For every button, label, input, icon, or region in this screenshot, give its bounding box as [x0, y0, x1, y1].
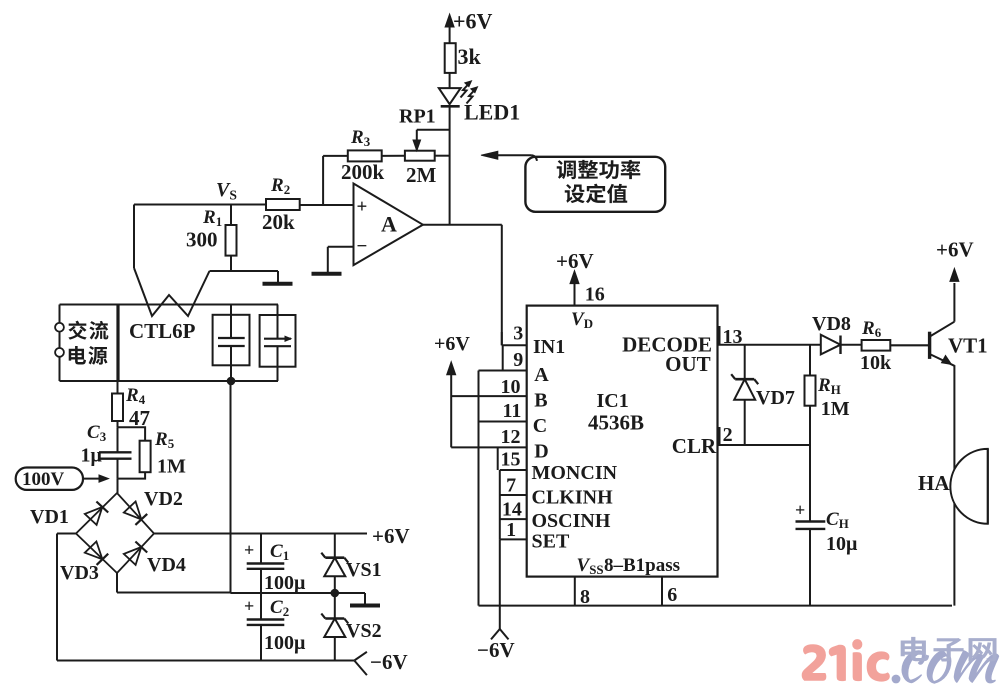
diode VD3	[60, 542, 108, 585]
+6V supply (top, above 3k)	[445, 9, 492, 44]
svg-text:−6V: −6V	[477, 638, 515, 662]
vertical bus SET/OSCINH/CLKINH/MONCIN	[499, 470, 501, 539]
svg-text:VD8: VD8	[812, 313, 851, 335]
svg-text:12: 12	[501, 426, 521, 448]
zener VS1	[321, 534, 381, 594]
pin 6 stub and label	[662, 577, 677, 607]
svg-text:8–B1pass: 8–B1pass	[604, 555, 680, 576]
bridge rectifier arms	[76, 493, 154, 573]
svg-text:CLKINH: CLKINH	[532, 487, 614, 509]
zener VS2	[321, 593, 381, 661]
wire bridge right to +6V rail	[154, 524, 410, 548]
pin 11 stub and label	[479, 400, 527, 422]
node Vs	[134, 179, 266, 205]
svg-text:VS2: VS2	[346, 620, 382, 642]
pin 8 stub and label	[575, 577, 590, 608]
CTL6P element box 1	[213, 305, 250, 382]
svg-text:16: 16	[585, 284, 605, 306]
svg-text:VD4: VD4	[147, 554, 186, 576]
svg-text:−: −	[357, 236, 368, 257]
label IC1 4536B	[588, 390, 644, 435]
svg-text:9: 9	[513, 349, 523, 371]
svg-text:1μ: 1μ	[81, 445, 103, 467]
svg-text:A: A	[381, 212, 397, 237]
svg-text:200k: 200k	[341, 160, 385, 184]
svg-text:C: C	[533, 415, 547, 437]
resistor R4 47	[112, 381, 150, 430]
svg-text:2: 2	[723, 424, 733, 446]
svg-text:10k: 10k	[860, 352, 892, 374]
svg-text:4536B: 4536B	[588, 411, 644, 435]
-6V rail (bottom left)	[57, 660, 354, 662]
svg-text:100V: 100V	[22, 469, 65, 490]
svg-text:+6V: +6V	[936, 238, 974, 262]
svg-text:6: 6	[667, 584, 677, 606]
svg-text:2M: 2M	[406, 163, 437, 187]
svg-text:3: 3	[513, 322, 523, 344]
svg-text:+6V: +6V	[434, 333, 470, 355]
transistor VT1	[930, 238, 988, 471]
svg-text:CTL6P: CTL6P	[129, 319, 196, 343]
svg-text:11: 11	[503, 400, 522, 422]
pin 12 stub and label	[451, 426, 527, 448]
svg-text:+: +	[244, 596, 254, 616]
junction dot (CTL6P bottom / 0V riser)	[227, 377, 236, 386]
svg-text:+6V: +6V	[372, 524, 410, 548]
diode VD1	[30, 502, 108, 529]
svg-text:14: 14	[502, 499, 522, 521]
svg-text:CLR: CLR	[672, 434, 717, 458]
junction dot (mid rail)	[331, 589, 340, 598]
CTL6P heater zigzag	[134, 268, 210, 316]
svg-text:D: D	[534, 441, 548, 463]
zener VD7	[731, 345, 795, 445]
svg-text:+: +	[357, 197, 368, 218]
svg-text:+6V: +6V	[453, 9, 493, 34]
resistor R2 20k	[262, 175, 300, 234]
resistor R1 300	[186, 205, 237, 272]
wire R3 left to op-amp + input	[323, 155, 348, 157]
svg-text:1M: 1M	[821, 398, 850, 420]
pin 10 stub and label	[451, 376, 527, 398]
svg-text:HA: HA	[918, 471, 950, 495]
+6V supply (pin 16)	[556, 249, 594, 306]
pin 7 stub and label	[500, 475, 527, 497]
ground (R1 bottom)	[263, 282, 293, 286]
svg-text:+6V: +6V	[556, 249, 594, 273]
diode VD2	[124, 488, 183, 525]
callout 调整功率设定值 (set power value)	[481, 151, 665, 212]
wire bridge bottom to mid rail	[116, 573, 118, 593]
svg-text:+: +	[795, 500, 805, 520]
bottom -6V rail under IC to speaker	[479, 605, 953, 607]
svg-text:15: 15	[501, 449, 521, 471]
capacitor CH 10u	[795, 445, 858, 606]
svg-text:1: 1	[506, 519, 516, 541]
svg-text:3k: 3k	[458, 44, 482, 69]
svg-text:VT1: VT1	[948, 334, 988, 358]
wire op-amp output to node and IC pin 3	[423, 224, 502, 226]
svg-text:OUT: OUT	[665, 352, 711, 376]
op-amp A	[354, 184, 423, 266]
pin 9 stub and label	[479, 345, 527, 371]
-6V supply (IC logic pins)	[477, 539, 515, 662]
diode VD4	[124, 542, 186, 577]
svg-text:IN1: IN1	[533, 336, 565, 358]
pin 14 stub and label	[500, 499, 527, 521]
capacitor C2 100u	[244, 593, 306, 661]
diode VD8	[812, 313, 851, 354]
svg-text:LED1: LED1	[464, 100, 520, 125]
wire LED1 cathode down to output node	[449, 106, 451, 224]
wire C3 node to bridge top	[117, 479, 119, 493]
svg-text:8: 8	[580, 586, 590, 608]
svg-text:A: A	[534, 364, 549, 386]
wire R1 bottom / ground branch	[210, 270, 279, 272]
IC U1 4536B box	[527, 306, 718, 577]
LED LED1	[439, 81, 520, 125]
+6V supply (pins B and D)	[434, 333, 470, 447]
resistor 3k	[445, 43, 482, 73]
CTL6P element box 2	[260, 305, 296, 382]
capacitor C3 1u	[81, 422, 132, 479]
wire pin 13 (DECODE OUT)	[718, 326, 821, 348]
CTL6P box outline	[60, 305, 279, 382]
svg-text:MONCIN: MONCIN	[532, 462, 618, 484]
svg-text:−6V: −6V	[370, 650, 408, 674]
label 交流电源 (AC power)	[68, 321, 108, 365]
watermark 21ic.com 电子网	[802, 637, 1000, 684]
label VSS 8-B1pass	[577, 555, 681, 577]
svg-text:OSCINH: OSCINH	[532, 510, 611, 532]
pin 1 stub and label	[500, 519, 527, 541]
capacitor C1 100u	[244, 534, 306, 595]
pin label DECODE OUT	[622, 332, 712, 376]
svg-text:B: B	[534, 390, 547, 412]
potentiometer RP1	[399, 106, 450, 188]
svg-text:100μ: 100μ	[264, 632, 306, 654]
100V callout	[16, 468, 109, 491]
wire CTL6P bottom node down to mid rail (crosses +6V rail)	[230, 381, 232, 593]
svg-text:100μ: 100μ	[264, 572, 306, 594]
svg-text:VD2: VD2	[144, 488, 183, 510]
svg-text:20k: 20k	[262, 210, 295, 234]
wire VD8 to R6	[841, 344, 862, 346]
svg-text:IC1: IC1	[597, 390, 629, 412]
wire speaker to -6V rail	[953, 503, 955, 606]
resistor R3	[341, 127, 405, 184]
svg-text:SET: SET	[532, 531, 570, 553]
svg-text:300: 300	[186, 228, 218, 252]
wire R6 to VT1 base	[890, 344, 928, 346]
svg-text:RP1: RP1	[399, 106, 436, 128]
vertical bus A/C to -6V rail	[478, 371, 480, 606]
pin 15 stub and label	[498, 447, 527, 470]
wire pin 2 (CLR)	[718, 424, 811, 446]
ground (op-amp inverting input)	[312, 247, 354, 274]
pin 3 label	[502, 322, 524, 345]
ground (mid rail)	[335, 593, 380, 606]
resistor R6 10k	[860, 318, 892, 374]
svg-text:10μ: 10μ	[826, 533, 858, 555]
resistor RH 1M	[805, 345, 850, 445]
svg-text:1M: 1M	[157, 456, 186, 478]
AC input terminal circles	[55, 323, 64, 332]
wire 3k to LED1	[449, 73, 451, 89]
svg-text:+: +	[244, 540, 254, 560]
svg-text:VS1: VS1	[346, 559, 382, 581]
resistor R5 1M	[118, 427, 187, 478]
wire bridge left to -6V rail	[57, 533, 76, 535]
speaker HA	[918, 449, 988, 524]
svg-text:10: 10	[501, 376, 521, 398]
svg-text:VD1: VD1	[30, 506, 69, 528]
mid rail (0V) to VS1/VS2 junction	[231, 592, 335, 594]
svg-text:VD3: VD3	[60, 562, 99, 584]
svg-text:VD7: VD7	[756, 387, 795, 409]
wire Vs down-left to CTL6P heater	[133, 205, 135, 269]
-6V terminal chevron	[354, 650, 407, 675]
svg-text:7: 7	[506, 475, 516, 497]
